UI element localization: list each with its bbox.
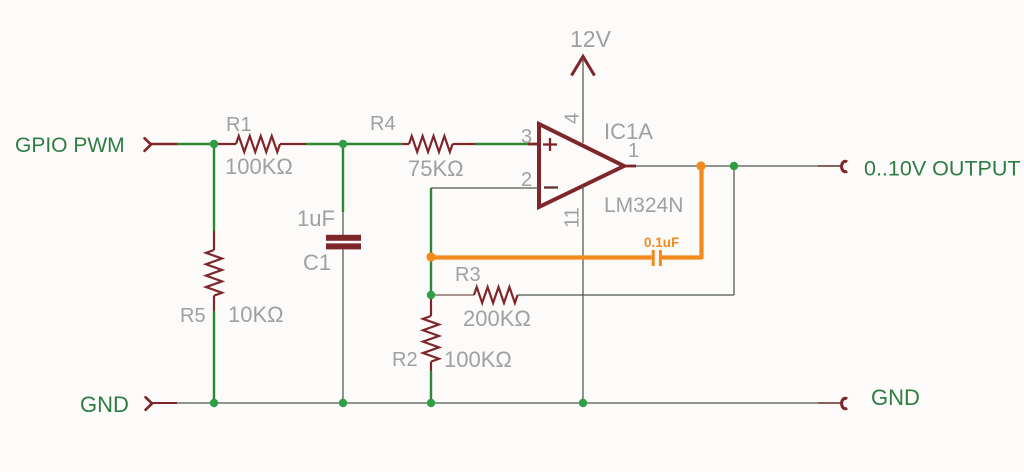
resistor R4 <box>402 136 475 152</box>
junction R3/R2 node <box>427 291 435 299</box>
pin connector GPIO PWM <box>145 138 151 151</box>
svg-text:10KΩ: 10KΩ <box>228 302 284 327</box>
svg-text:100KΩ: 100KΩ <box>225 154 293 179</box>
svg-text:3: 3 <box>521 126 532 148</box>
svg-text:11: 11 <box>562 207 584 228</box>
junction GND rail pin11 <box>579 399 587 407</box>
pin connector GND right <box>842 398 847 408</box>
wire R4 to opamp pin3 <box>475 143 528 146</box>
svg-text:R4: R4 <box>370 113 396 135</box>
wire C1 bottom lead to GND rail <box>342 249 344 403</box>
junction GND rail R5 <box>210 399 218 407</box>
svg-text:4: 4 <box>562 113 584 124</box>
pin stub 1 <box>624 165 636 168</box>
wire node2 down to C1 <box>342 144 344 212</box>
svg-text:GND: GND <box>871 385 920 410</box>
svg-text:R3: R3 <box>455 264 481 286</box>
junction orange on output net <box>696 161 705 170</box>
wire 12V to opamp pin4 <box>582 58 584 143</box>
svg-text:R2: R2 <box>392 349 418 371</box>
svg-text:R1: R1 <box>226 114 252 136</box>
wire pin stub GPIO PWM <box>151 143 177 146</box>
op-amp plus symbol <box>543 138 557 151</box>
svg-text:R5: R5 <box>180 305 206 327</box>
resistor R2 <box>423 295 439 371</box>
junction orange on pin2 net <box>426 252 435 261</box>
svg-text:75KΩ: 75KΩ <box>408 156 464 181</box>
junction node1 <box>210 140 218 148</box>
svg-text:GPIO PWM: GPIO PWM <box>15 134 125 157</box>
wire node1 down to R5 <box>213 144 215 231</box>
junction output node <box>730 162 738 170</box>
wire R5 to GND rail <box>213 311 215 403</box>
svg-text:12V: 12V <box>570 26 612 52</box>
svg-text:1uF: 1uF <box>297 206 335 231</box>
svg-text:LM324N: LM324N <box>604 194 683 217</box>
pin connector GND left <box>146 397 152 410</box>
wire R1 to node2 <box>306 143 343 146</box>
junction node2 <box>339 140 347 148</box>
supply 12V arrow <box>572 57 595 76</box>
op-amp IC1A triangle <box>539 124 624 207</box>
capacitor 0.1uF orange net <box>431 166 702 266</box>
wire opamp output to output pin <box>636 165 841 167</box>
wire node2 to R4 <box>343 143 402 146</box>
wire feedback vertical <box>733 166 735 295</box>
svg-text:200KΩ: 200KΩ <box>463 306 531 331</box>
wire pin2 net horizontal <box>431 187 539 189</box>
wire GND right pin stub <box>818 402 840 404</box>
wire pin2 net vertical <box>430 188 432 295</box>
wire GND rail <box>177 402 841 404</box>
resistor R5 <box>206 231 222 311</box>
svg-text:100KΩ: 100KΩ <box>444 347 512 372</box>
svg-text:0..10V OUTPUT: 0..10V OUTPUT <box>864 157 1021 181</box>
op-amp minus symbol <box>544 186 558 188</box>
svg-text:0.1uF: 0.1uF <box>644 235 679 250</box>
wire opamp pin11 to GND rail <box>582 186 584 403</box>
wire R2 to GND rail <box>430 371 432 403</box>
svg-text:GND: GND <box>80 392 129 417</box>
resistor R3 <box>434 287 518 303</box>
pin connector 0..10V OUTPUT <box>842 161 847 171</box>
capacitor C1 <box>326 235 361 250</box>
svg-text:C1: C1 <box>303 250 331 275</box>
wire C1 top lead <box>342 212 344 235</box>
wire GPIO PWM to node1 <box>177 143 214 146</box>
junction GND rail R2 <box>427 399 435 407</box>
svg-text:1: 1 <box>628 140 639 162</box>
wire output pin stub <box>818 165 840 167</box>
resistor R1 <box>214 136 306 152</box>
wire GND pin stub <box>152 402 177 404</box>
wire R3 to feedback vertical <box>518 294 734 296</box>
pin stub 3 <box>528 143 541 146</box>
junction GND rail C1 <box>339 399 347 407</box>
